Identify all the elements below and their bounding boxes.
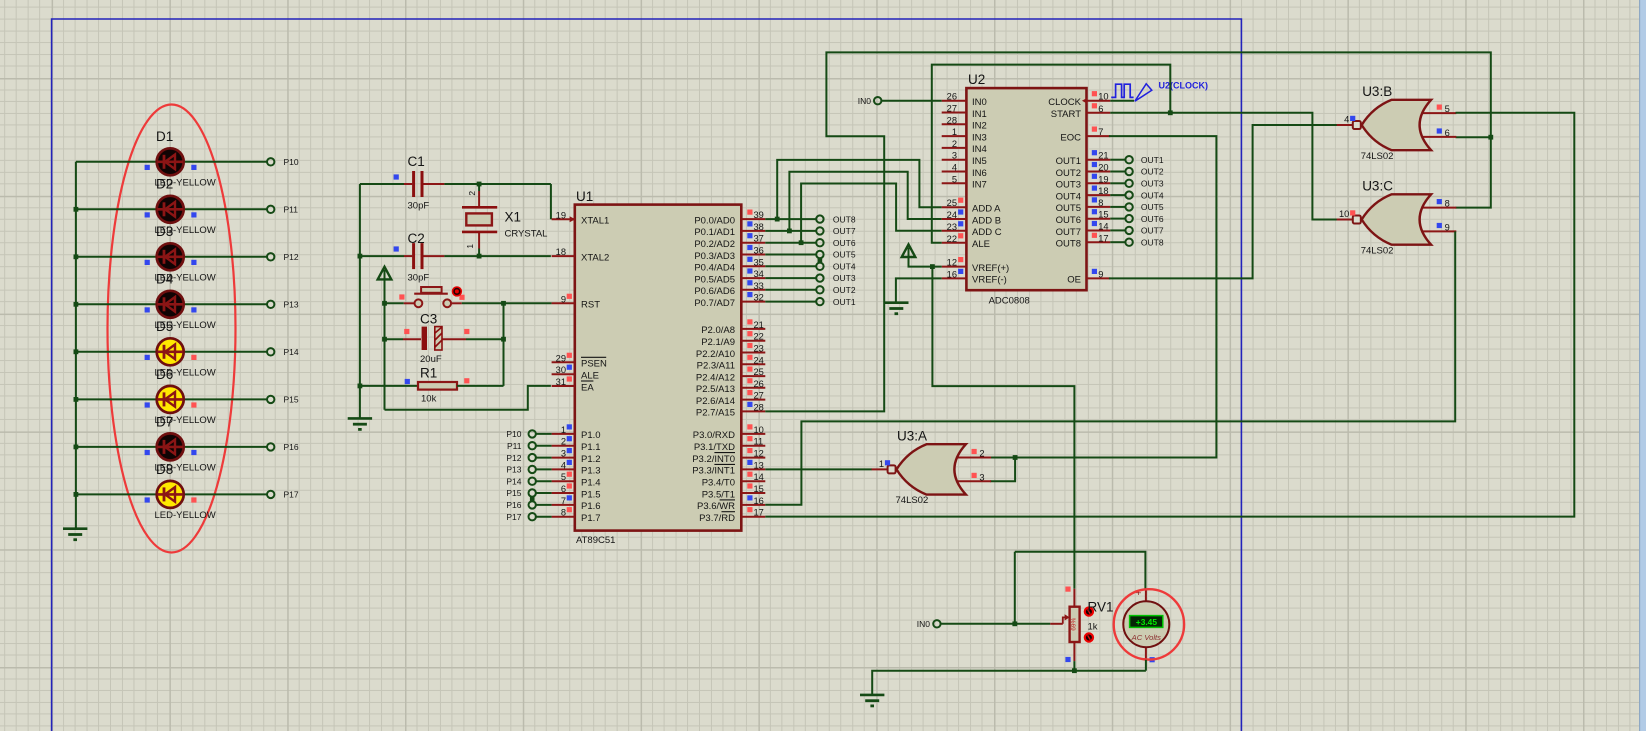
svg-text:6: 6 <box>1098 104 1103 114</box>
ground (oscillator) <box>348 418 372 429</box>
LED D3 (dark) <box>76 243 267 270</box>
svg-text:D5: D5 <box>156 319 173 334</box>
svg-text:IN5: IN5 <box>972 156 987 167</box>
svg-text:9: 9 <box>1445 223 1450 233</box>
svg-text:7: 7 <box>561 496 566 506</box>
svg-text:AC Volts: AC Volts <box>1131 633 1161 642</box>
wire LED common cathode bus <box>75 162 77 529</box>
wire left vertical (C1/C2/R1 common to ground) <box>359 184 361 418</box>
svg-text:ADC0808: ADC0808 <box>989 296 1030 307</box>
svg-text:OUT2: OUT2 <box>1056 168 1081 179</box>
pin 22 (P2.1/A9) U1 <box>701 331 765 348</box>
wire U2 OUT1 <box>1110 159 1125 161</box>
ground (bottom rail) <box>860 695 884 706</box>
svg-text:P14: P14 <box>284 347 299 357</box>
bridge blob OUT5/OUT4 <box>818 258 823 263</box>
wire U2 OUT5 <box>1110 206 1125 208</box>
svg-text:P3.0/RXD: P3.0/RXD <box>693 430 735 441</box>
wire meter bottom <box>1145 660 1147 671</box>
wire U3A in2 <box>990 457 1015 459</box>
node OUT2 (U2 side) terminal <box>1125 168 1132 175</box>
junction IN0/wiper <box>1012 621 1017 626</box>
svg-text:21: 21 <box>754 320 764 330</box>
svg-text:C2: C2 <box>408 231 425 246</box>
node OUT1 terminal <box>816 298 823 305</box>
svg-text:P3.6/WR: P3.6/WR <box>697 501 735 512</box>
svg-text:10: 10 <box>1098 92 1108 102</box>
svg-text:P17: P17 <box>506 512 521 522</box>
svg-text:20: 20 <box>1098 163 1108 173</box>
svg-text:EA: EA <box>581 382 594 393</box>
svg-text:25: 25 <box>754 367 764 377</box>
crystal X1 <box>462 184 497 256</box>
svg-text:P0.5/AD5: P0.5/AD5 <box>694 274 735 285</box>
svg-text:P1.4: P1.4 <box>581 478 601 489</box>
capacitor C3 (electrolytic) <box>385 327 504 350</box>
svg-text:P17: P17 <box>284 490 299 500</box>
svg-text:30pF: 30pF <box>408 273 430 284</box>
svg-text:25: 25 <box>947 198 957 208</box>
svg-text:P1.2: P1.2 <box>581 454 601 465</box>
svg-text:R1: R1 <box>420 366 437 381</box>
wire net P3.7/RD - U3B.5 <box>765 113 1574 517</box>
node OUT4 terminal <box>816 263 823 270</box>
svg-text:P1.1: P1.1 <box>581 442 601 453</box>
svg-text:10: 10 <box>1339 209 1349 219</box>
svg-text:37: 37 <box>754 234 764 244</box>
wire P0.0 to OUT8 <box>765 218 816 220</box>
wire RV1 top link <box>1015 552 1146 589</box>
svg-text:XTAL2: XTAL2 <box>581 252 609 263</box>
junction RST/C3 right <box>501 301 506 306</box>
wire U2 OUT3 <box>1110 182 1125 184</box>
node OUT2 terminal <box>816 286 823 293</box>
junction crystal top <box>477 182 482 187</box>
node IN0 (bottom) terminal <box>933 620 940 627</box>
svg-text:X1: X1 <box>505 210 522 225</box>
svg-text:4: 4 <box>561 460 566 470</box>
sheet border <box>52 19 1242 731</box>
svg-text:19: 19 <box>556 210 566 220</box>
LED D7 (dark) <box>76 433 267 460</box>
pin 1 (P1.0) U1 <box>552 424 601 441</box>
node P14 terminal <box>267 348 274 355</box>
svg-text:30: 30 <box>556 365 566 375</box>
wire U2 OUT8 <box>1110 241 1125 243</box>
pin 3 (IN5) U2 <box>942 151 987 167</box>
svg-text:OUT4: OUT4 <box>1141 190 1164 200</box>
pin 5 (U3:B in1) <box>1437 105 1442 110</box>
svg-text:ALE: ALE <box>581 371 599 382</box>
svg-text:9: 9 <box>1098 269 1103 279</box>
pin 10 (CLOCK) U2 <box>1048 91 1110 108</box>
node P16 (U1 side) terminal <box>529 501 536 508</box>
highlight ellipse around LEDs <box>108 105 236 553</box>
node P10 (U1 side) terminal <box>529 430 536 437</box>
wire C2 row <box>360 255 404 257</box>
pin 6 (START) U2 <box>1051 103 1111 120</box>
pin 35 (P0.4/AD4) U1 <box>694 257 765 274</box>
wire U2 OUT6 <box>1110 218 1125 220</box>
wire P0.1 to OUT7 <box>765 230 816 232</box>
junction U3A inputs <box>1013 455 1018 460</box>
svg-text:2: 2 <box>979 449 984 459</box>
svg-text:P14: P14 <box>506 476 521 486</box>
wire net EOC - U3A inputs <box>990 136 1216 457</box>
svg-text:OUT1: OUT1 <box>833 297 856 307</box>
svg-text:P0.6/AD6: P0.6/AD6 <box>694 286 735 297</box>
node P11 terminal <box>267 206 274 213</box>
svg-text:26: 26 <box>947 92 957 102</box>
svg-text:3: 3 <box>952 151 957 161</box>
pin 1 (IN3) U2 <box>942 127 987 143</box>
svg-text:5: 5 <box>1445 104 1450 114</box>
svg-text:2: 2 <box>467 191 477 196</box>
pin 18 (OUT4) U2 <box>1056 186 1111 203</box>
svg-text:OUT1: OUT1 <box>1056 156 1081 167</box>
node P15 terminal <box>267 396 274 403</box>
svg-text:9: 9 <box>561 294 566 304</box>
svg-text:VREF(+): VREF(+) <box>972 263 1009 274</box>
pin 15 (P3.5/T1) U1 <box>702 483 766 500</box>
pin 25 (P2.4/A12) U1 <box>696 367 765 384</box>
svg-text:P2.4/A12: P2.4/A12 <box>696 372 735 383</box>
pin 20 (OUT2) U2 <box>1056 162 1111 179</box>
junction LED bus row 5 <box>74 349 79 354</box>
svg-text:P2.5/A13: P2.5/A13 <box>696 384 735 395</box>
button actuator knob <box>459 295 464 300</box>
wire RST row <box>462 302 552 304</box>
svg-text:IN0: IN0 <box>858 96 872 106</box>
svg-text:27: 27 <box>947 104 957 114</box>
junction C2 left <box>358 254 363 259</box>
node OUT7 (U2 side) terminal <box>1125 227 1132 234</box>
potentiometer RV1 <box>1050 589 1079 661</box>
svg-text:18: 18 <box>556 247 566 257</box>
svg-text:P2.0/A8: P2.0/A8 <box>701 325 735 336</box>
svg-text:P13: P13 <box>284 300 299 310</box>
pin 9 (U3:C in2) <box>1437 223 1442 228</box>
wire net U3B.6 branch <box>1456 136 1491 138</box>
svg-text:OUT5: OUT5 <box>1141 202 1164 212</box>
node P13 terminal <box>267 301 274 308</box>
pin 31 (EA) U1 <box>552 376 595 393</box>
junction START <box>1168 110 1173 115</box>
wire U2 OUT7 <box>1110 229 1125 231</box>
LED D2 (dark) <box>76 196 267 223</box>
svg-text:OUT2: OUT2 <box>833 285 856 295</box>
pin 2 (IN4) U2 <box>942 139 987 155</box>
svg-text:24: 24 <box>754 355 764 365</box>
pin 21 (P2.0/A8) U1 <box>701 319 765 336</box>
svg-text:P3.3/INT1: P3.3/INT1 <box>692 466 735 477</box>
LED D6 (yellow on) <box>76 386 267 413</box>
wire P0.4 to OUT4 <box>765 265 816 267</box>
junction P0.0 <box>775 217 780 222</box>
wire net START - U3C out <box>1110 113 1337 220</box>
svg-text:28: 28 <box>754 402 764 412</box>
svg-text:P0.0/AD0: P0.0/AD0 <box>694 215 735 226</box>
svg-text:26: 26 <box>754 379 764 389</box>
svg-text:34: 34 <box>754 269 764 279</box>
svg-text:35: 35 <box>754 257 764 267</box>
svg-text:8: 8 <box>561 508 566 518</box>
node P17 (U1 side) terminal <box>529 513 536 520</box>
svg-text:P11: P11 <box>507 441 522 451</box>
svg-text:39: 39 <box>754 210 764 220</box>
svg-text:P2.7/A15: P2.7/A15 <box>696 408 735 419</box>
wire U3A output to P3.3 <box>765 468 872 470</box>
pin 25 (ADD A) U2 <box>942 198 1001 215</box>
junction LED bus row 7 <box>74 445 79 450</box>
power arrow (VREF+) <box>908 247 910 258</box>
junction R1 left <box>358 384 363 389</box>
svg-text:U3:C: U3:C <box>1362 179 1393 194</box>
pin 28 (P2.7/A15) U1 <box>696 402 765 419</box>
node OUT5 (U2 side) terminal <box>1125 203 1132 210</box>
svg-text:OUT6: OUT6 <box>1141 214 1164 224</box>
wire RST-C3-R1 right vertical <box>503 303 505 386</box>
pin 5 (P1.4) U1 <box>552 472 601 489</box>
svg-text:2: 2 <box>561 437 566 447</box>
junction VREF+ <box>930 264 935 269</box>
svg-text:P1.5: P1.5 <box>581 489 601 500</box>
IC U2 ADC0808 body <box>966 88 1086 290</box>
svg-text:U1: U1 <box>576 189 593 204</box>
svg-text:2: 2 <box>952 139 957 149</box>
svg-text:38: 38 <box>754 222 764 232</box>
svg-text:33: 33 <box>754 281 764 291</box>
svg-text:START: START <box>1051 109 1081 120</box>
svg-text:LED-YELLOW: LED-YELLOW <box>155 510 216 521</box>
pin 12 (VREF(+)) U2 <box>942 257 1010 274</box>
wire net VREF+ - RV1 <box>932 267 1074 589</box>
pin 19 (OUT3) U2 <box>1056 174 1111 191</box>
pin 16 (VREF(-)) U2 <box>942 269 1007 286</box>
svg-text:3: 3 <box>561 449 566 459</box>
resistor R1 <box>360 382 504 390</box>
pin 6 (P1.5) U1 <box>552 483 601 500</box>
svg-text:P10: P10 <box>506 429 521 439</box>
bridge blob P15/P16 <box>530 497 535 502</box>
svg-text:12: 12 <box>947 258 957 268</box>
svg-text:C1: C1 <box>408 154 425 169</box>
pin 22 (ALE) U2 <box>942 233 990 250</box>
pin 17 (P3.7/RD) U1 <box>699 507 765 524</box>
svg-text:17: 17 <box>1098 233 1108 243</box>
svg-text:P3.7/RD: P3.7/RD <box>699 513 735 524</box>
svg-text:P12: P12 <box>284 252 299 262</box>
svg-text:VREF(-): VREF(-) <box>972 275 1007 286</box>
wire P0.6 to OUT2 <box>765 289 816 291</box>
node P11 (U1 side) terminal <box>529 442 536 449</box>
wire VCC to RST row <box>384 280 386 410</box>
svg-text:8: 8 <box>1445 199 1450 209</box>
svg-text:16: 16 <box>754 496 764 506</box>
node P12 terminal <box>267 253 274 260</box>
junction P0.2 <box>799 240 804 245</box>
capacitor C1 <box>404 171 444 197</box>
svg-text:IN2: IN2 <box>972 121 987 132</box>
junction RST row <box>382 301 387 306</box>
svg-text:IN3: IN3 <box>972 132 987 143</box>
svg-text:AT89C51: AT89C51 <box>576 535 615 546</box>
node OUT8 terminal <box>816 215 823 222</box>
svg-text:CLOCK: CLOCK <box>1048 97 1081 108</box>
wire net P0.2 - ADD C <box>801 184 942 243</box>
svg-text:36: 36 <box>754 246 764 256</box>
wire U2 OUT4 <box>1110 194 1125 196</box>
svg-text:EOC: EOC <box>1060 132 1081 143</box>
pin 30 (ALE) U1 <box>552 365 599 382</box>
svg-text:P1.7: P1.7 <box>581 513 601 524</box>
pin 9 (OE) U2 <box>1067 269 1110 286</box>
wire net P0.1 - ADD B <box>789 172 941 231</box>
svg-text:P2.3/A11: P2.3/A11 <box>697 361 735 372</box>
node P10 terminal <box>267 158 274 165</box>
svg-text:P0.2/AD2: P0.2/AD2 <box>694 239 735 250</box>
svg-text:1: 1 <box>952 127 957 137</box>
svg-text:U3:A: U3:A <box>897 428 927 443</box>
svg-text:OUT3: OUT3 <box>833 273 856 283</box>
svg-text:IN7: IN7 <box>972 180 987 191</box>
svg-text:14: 14 <box>1098 222 1108 232</box>
svg-text:P3.4/T0: P3.4/T0 <box>702 478 735 489</box>
svg-text:U3:B: U3:B <box>1362 84 1392 99</box>
svg-text:D3: D3 <box>156 224 173 239</box>
svg-text:P0.7/AD7: P0.7/AD7 <box>694 298 735 309</box>
wire C1 row <box>360 183 404 185</box>
pin 14 (OUT7) U2 <box>1056 221 1111 238</box>
wire P0.3 to OUT5 <box>765 254 816 256</box>
svg-text:23: 23 <box>754 344 764 354</box>
node P14 (U1 side) terminal <box>529 478 536 485</box>
svg-text:PSEN: PSEN <box>581 359 607 370</box>
svg-text:U2(CLOCK): U2(CLOCK) <box>1159 81 1209 91</box>
svg-text:OUT8: OUT8 <box>1056 239 1081 250</box>
svg-text:12: 12 <box>754 449 764 459</box>
svg-text:OUT4: OUT4 <box>833 262 856 272</box>
NOR gate U3:C (74LS02, mirrored) <box>1337 194 1457 244</box>
svg-text:P2.2/A10: P2.2/A10 <box>696 349 735 360</box>
svg-text:P10: P10 <box>284 157 299 167</box>
wire P0.2 to OUT6 <box>765 242 816 244</box>
node OUT1 (U2 side) terminal <box>1125 156 1132 163</box>
svg-text:4: 4 <box>952 163 957 173</box>
svg-text:23: 23 <box>947 222 957 232</box>
svg-text:OUT6: OUT6 <box>833 238 856 248</box>
svg-text:OUT3: OUT3 <box>1141 179 1164 189</box>
NOR gate U3:A (74LS02, mirrored) <box>872 444 992 494</box>
svg-text:OUT4: OUT4 <box>1056 191 1081 202</box>
pin 3 (P1.2) U1 <box>552 448 601 465</box>
LED D5 (yellow on) <box>76 338 267 365</box>
svg-text:P3.1/TXD: P3.1/TXD <box>694 442 735 453</box>
wire net P0.0 - ADD A <box>777 160 942 219</box>
window edge strip <box>1640 0 1646 731</box>
svg-text:RV1: RV1 <box>1088 600 1114 615</box>
svg-text:OUT5: OUT5 <box>1056 203 1081 214</box>
wire P0.7 to OUT1 <box>765 301 816 303</box>
node OUT5 terminal <box>816 251 823 258</box>
svg-text:18: 18 <box>1098 186 1108 196</box>
pin 8 (P1.7) U1 <box>552 507 601 524</box>
pin 8 (U3:C in1) <box>1437 199 1442 204</box>
svg-text:P1.0: P1.0 <box>581 430 601 441</box>
node OUT4 (U2 side) terminal <box>1125 191 1132 198</box>
node P13 (U1 side) terminal <box>529 466 536 473</box>
pin 15 (OUT6) U2 <box>1056 209 1111 226</box>
svg-text:6: 6 <box>561 484 566 494</box>
svg-text:OUT5: OUT5 <box>833 250 856 260</box>
wire net ALE - top <box>932 65 1171 243</box>
svg-text:15: 15 <box>1098 210 1108 220</box>
svg-text:D4: D4 <box>156 272 174 287</box>
pin 4 (IN6) U2 <box>942 163 987 179</box>
svg-text:1: 1 <box>879 459 884 469</box>
svg-text:CRYSTAL: CRYSTAL <box>505 229 548 240</box>
svg-text:ADD A: ADD A <box>972 204 1001 215</box>
wire P0.5 to OUT3 <box>765 277 816 279</box>
pin 28 (IN2) U2 <box>942 115 987 131</box>
pin 37 (P0.2/AD2) U1 <box>694 233 765 250</box>
svg-text:OUT8: OUT8 <box>1141 237 1164 247</box>
pin 26 (IN0) U2 <box>942 92 987 108</box>
svg-text:16: 16 <box>947 269 957 279</box>
svg-text:31: 31 <box>556 377 566 387</box>
XTAL1 edge arrow <box>570 216 576 222</box>
wire RV1 bottom <box>1073 661 1075 671</box>
svg-text:P12: P12 <box>506 453 521 463</box>
LED D8 (yellow on) <box>76 481 267 508</box>
pin 3 (U3:A in2) <box>972 473 977 478</box>
node OUT3 terminal <box>816 274 823 281</box>
junction LED bus row 3 <box>74 254 79 259</box>
junction RV1 bottom <box>1072 668 1077 673</box>
pin 17 (OUT8) U2 <box>1056 233 1111 250</box>
wire net P3.6/WR - U3C.9 <box>765 231 1455 504</box>
pin 39 (P0.0/AD0) U1 <box>694 210 765 227</box>
svg-text:D7: D7 <box>156 414 173 429</box>
pin 16 (P3.6/WR) U1 <box>697 495 765 512</box>
wire bottom rail <box>872 671 1146 695</box>
node OUT8 (U2 side) terminal <box>1125 239 1132 246</box>
LED D1 (dark) <box>76 148 267 175</box>
svg-text:D1: D1 <box>156 129 173 144</box>
pin 38 (P0.1/AD1) U1 <box>694 221 765 238</box>
pin 12 (P3.2/INT0) U1 <box>692 448 765 465</box>
pin 18 (XTAL2) U1 <box>552 247 610 263</box>
node OUT7 terminal <box>816 227 823 234</box>
pin 34 (P0.5/AD5) U1 <box>694 268 765 285</box>
node P12 (U1 side) terminal <box>529 454 536 461</box>
U1 P1 port terminals <box>536 433 552 435</box>
svg-text:10k: 10k <box>421 394 437 405</box>
svg-text:P0.1/AD1: P0.1/AD1 <box>694 227 735 238</box>
pin 19 (XTAL1) U1 <box>552 210 610 226</box>
pin 14 (P3.4/T0) U1 <box>702 472 766 489</box>
svg-text:4: 4 <box>1344 114 1349 124</box>
svg-text:32: 32 <box>754 293 764 303</box>
svg-text:OUT6: OUT6 <box>1056 215 1081 226</box>
svg-text:1: 1 <box>465 244 475 249</box>
wire net VREF- to ground <box>896 278 942 302</box>
svg-text:U2: U2 <box>968 72 985 87</box>
svg-text:P1.3: P1.3 <box>581 466 601 477</box>
LED D4 (dark) <box>76 291 267 318</box>
generator U2(CLOCK) <box>1110 84 1152 102</box>
svg-text:IN1: IN1 <box>972 109 987 120</box>
